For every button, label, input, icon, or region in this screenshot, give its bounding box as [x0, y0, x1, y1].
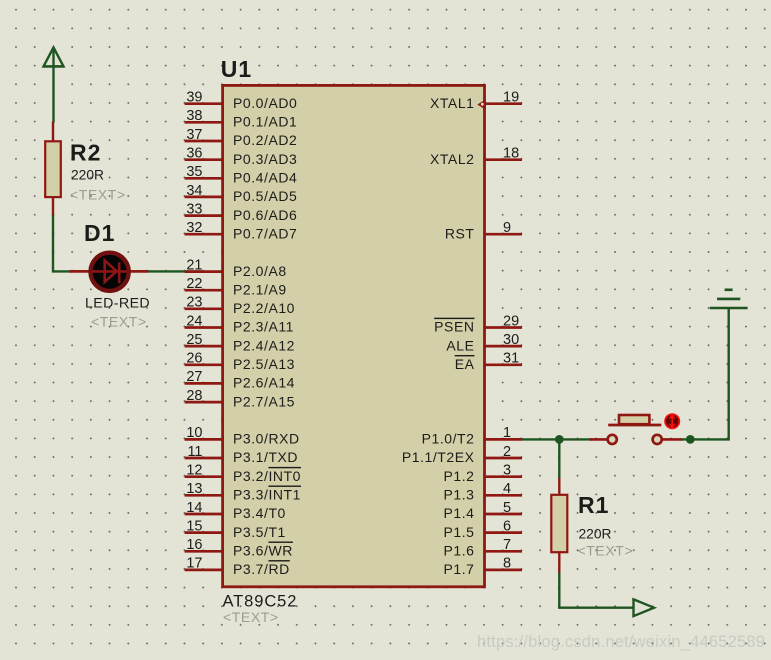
- svg-text:36: 36: [186, 146, 202, 162]
- svg-text:P3.7/RD: P3.7/RD: [233, 561, 290, 577]
- push button: [590, 415, 683, 444]
- svg-text:P0.6/AD6: P0.6/AD6: [233, 207, 297, 223]
- svg-text:33: 33: [186, 201, 202, 217]
- svg-text:29: 29: [503, 313, 519, 329]
- pin 12 P3.2/INT0: [185, 463, 301, 484]
- pin 1 P1.0/T2: [422, 425, 522, 446]
- pin 17 P3.7/RD: [185, 556, 290, 577]
- pin 31 EA: [455, 351, 522, 372]
- svg-text:P0.7/AD7: P0.7/AD7: [233, 225, 297, 241]
- svg-text:PSEN: PSEN: [434, 319, 474, 335]
- pin 25 P2.4/A12: [185, 332, 295, 353]
- svg-text:6: 6: [503, 518, 511, 534]
- pin 10 P3.0/RXD: [185, 425, 300, 446]
- svg-text:P1.4: P1.4: [444, 505, 475, 521]
- svg-text:14: 14: [186, 500, 202, 516]
- svg-text:P0.2/AD2: P0.2/AD2: [233, 132, 297, 148]
- svg-text:P3.5/T1: P3.5/T1: [233, 524, 286, 540]
- svg-text:17: 17: [186, 556, 202, 572]
- wire R1 to output arrow: [559, 573, 633, 608]
- svg-text:P0.4/AD4: P0.4/AD4: [233, 170, 297, 186]
- svg-text:P0.5/AD5: P0.5/AD5: [233, 188, 297, 204]
- button actuator marker: [665, 414, 679, 428]
- svg-text:26: 26: [186, 351, 202, 367]
- svg-text:25: 25: [186, 332, 202, 348]
- svg-text:XTAL2: XTAL2: [430, 151, 475, 167]
- pin 15 P3.5/T1: [185, 518, 286, 540]
- pin 19 XTAL1 edge marker: [477, 99, 486, 110]
- pin 4 P1.3: [444, 481, 523, 502]
- svg-text:23: 23: [186, 295, 202, 311]
- svg-text:39: 39: [186, 90, 202, 106]
- svg-text:P3.6/WR: P3.6/WR: [233, 543, 293, 559]
- svg-text:P1.0/T2: P1.0/T2: [422, 431, 475, 447]
- pin 7 P1.6: [444, 537, 523, 558]
- svg-text:P1.1/T2EX: P1.1/T2EX: [402, 449, 475, 465]
- svg-text:<TEXT>: <TEXT>: [91, 314, 147, 330]
- svg-text:P3.1/TXD: P3.1/TXD: [233, 449, 298, 465]
- svg-text:37: 37: [186, 127, 202, 143]
- svg-text:35: 35: [186, 164, 202, 180]
- svg-text:P3.4/T0: P3.4/T0: [233, 505, 286, 521]
- svg-text:9: 9: [503, 220, 511, 236]
- pin 11 P3.1/TXD: [185, 444, 298, 465]
- svg-text:19: 19: [503, 90, 519, 106]
- svg-text:13: 13: [186, 481, 202, 497]
- output arrow symbol: [634, 599, 655, 616]
- svg-text:P3.0/RXD: P3.0/RXD: [233, 431, 300, 447]
- wire R2 to D1 corner: [53, 215, 71, 271]
- pin 33 P0.6/AD6: [185, 201, 298, 222]
- svg-text:32: 32: [186, 220, 202, 236]
- svg-text:2: 2: [503, 444, 511, 460]
- wire pin1 to node A: [522, 438, 559, 440]
- pin 32 P0.7/AD7: [185, 220, 298, 241]
- svg-text:<TEXT>: <TEXT>: [70, 187, 126, 203]
- svg-text:P2.2/A10: P2.2/A10: [233, 300, 295, 316]
- svg-text:P1.5: P1.5: [444, 524, 475, 540]
- svg-text:27: 27: [186, 369, 202, 385]
- svg-text:D1: D1: [84, 220, 115, 246]
- wire node A to R1: [558, 439, 560, 479]
- svg-text:P2.6/A14: P2.6/A14: [233, 375, 295, 391]
- pin 39 P0.0/AD0: [185, 90, 298, 111]
- svg-text:P3.2/INT0: P3.2/INT0: [233, 468, 301, 484]
- svg-text:21: 21: [186, 257, 202, 273]
- svg-text:P0.3/AD3: P0.3/AD3: [233, 151, 297, 167]
- svg-text:P0.0/AD0: P0.0/AD0: [233, 95, 297, 111]
- svg-text:R1: R1: [578, 492, 609, 518]
- svg-text:4: 4: [503, 481, 511, 497]
- pin 9 RST: [445, 220, 522, 241]
- svg-text:P1.2: P1.2: [444, 468, 475, 484]
- svg-text:P1.6: P1.6: [444, 543, 475, 559]
- svg-text:LED-RED: LED-RED: [85, 296, 150, 312]
- svg-text:220R: 220R: [71, 168, 104, 183]
- LED D1: [70, 253, 149, 291]
- ground: [710, 290, 748, 308]
- pin 16 P3.6/WR: [185, 537, 293, 558]
- wire D1 to pin 21: [148, 270, 203, 272]
- pin 21 P2.0/A8: [185, 257, 287, 278]
- svg-text:XTAL1: XTAL1: [430, 95, 475, 111]
- pin 24 P2.3/A11: [185, 313, 294, 334]
- svg-text:24: 24: [186, 313, 202, 329]
- node B junction: [686, 435, 695, 444]
- svg-text:P2.7/A15: P2.7/A15: [233, 393, 295, 409]
- pin 13 P3.3/INT1: [185, 481, 301, 502]
- resistor R1: [551, 478, 567, 574]
- wire node B to ground: [682, 308, 729, 439]
- wire node A to button: [559, 438, 592, 440]
- node A junction: [555, 435, 564, 444]
- pin 27 P2.6/A14: [185, 369, 295, 390]
- svg-text:P2.3/A11: P2.3/A11: [233, 319, 294, 335]
- svg-text:R2: R2: [70, 140, 101, 166]
- pin 28 P2.7/A15: [185, 388, 295, 409]
- svg-text:15: 15: [186, 518, 202, 534]
- svg-text:EA: EA: [455, 356, 475, 372]
- pin 3 P1.2: [444, 463, 523, 484]
- svg-text:3: 3: [503, 463, 511, 479]
- svg-text:31: 31: [503, 351, 519, 367]
- svg-text:8: 8: [503, 556, 511, 572]
- svg-text:<TEXT>: <TEXT>: [578, 543, 634, 559]
- svg-text:7: 7: [503, 537, 511, 553]
- pin 22 P2.1/A9: [185, 276, 287, 297]
- svg-text:U1: U1: [221, 56, 252, 82]
- op-amp U1 AT89C52 body: [223, 85, 485, 586]
- pin 8 P1.7: [444, 556, 523, 577]
- svg-text:AT89C52: AT89C52: [223, 593, 298, 611]
- pin 38 P0.1/AD1: [185, 108, 298, 129]
- pin 19 XTAL1: [430, 90, 522, 111]
- pin 6 P1.5: [444, 518, 523, 540]
- svg-text:22: 22: [186, 276, 202, 292]
- pin 14 P3.4/T0: [185, 500, 286, 521]
- svg-text:38: 38: [186, 108, 202, 124]
- svg-text:30: 30: [503, 332, 519, 348]
- svg-text:34: 34: [186, 183, 202, 199]
- svg-text:P3.3/INT1: P3.3/INT1: [233, 487, 301, 503]
- svg-text:P1.3: P1.3: [444, 487, 475, 503]
- svg-text:P2.4/A12: P2.4/A12: [233, 337, 295, 353]
- pin 5 P1.4: [444, 500, 523, 521]
- svg-text:18: 18: [503, 146, 519, 162]
- pin 18 XTAL2: [430, 146, 522, 167]
- pin 36 P0.3/AD3: [185, 146, 298, 167]
- svg-text:12: 12: [186, 463, 202, 479]
- pin 37 P0.2/AD2: [185, 127, 298, 148]
- svg-text:16: 16: [186, 537, 202, 553]
- svg-text:10: 10: [186, 425, 202, 441]
- pin 35 P0.4/AD4: [185, 164, 298, 185]
- wire VCC to R2: [52, 66, 54, 122]
- svg-text:11: 11: [187, 444, 202, 460]
- svg-text:ALE: ALE: [446, 337, 474, 353]
- svg-text:P1.7: P1.7: [444, 561, 475, 577]
- pin 23 P2.2/A10: [185, 295, 295, 316]
- power symbol VCC top-left: [43, 48, 64, 67]
- pin 2 P1.1/T2EX: [402, 444, 522, 465]
- svg-text:P0.1/AD1: P0.1/AD1: [233, 114, 297, 130]
- pin 30 ALE: [446, 332, 522, 353]
- svg-text:220R: 220R: [579, 527, 612, 542]
- svg-text:P2.1/A9: P2.1/A9: [233, 281, 287, 297]
- pin 26 P2.5/A13: [185, 351, 295, 372]
- pin 34 P0.5/AD5: [185, 183, 298, 204]
- svg-text:5: 5: [503, 500, 511, 516]
- pin 29 PSEN: [434, 313, 522, 334]
- svg-text:<TEXT>: <TEXT>: [223, 609, 279, 625]
- svg-text:P2.0/A8: P2.0/A8: [233, 263, 287, 279]
- svg-text:28: 28: [186, 388, 202, 404]
- svg-text:P2.5/A13: P2.5/A13: [233, 356, 295, 372]
- svg-text:RST: RST: [445, 225, 475, 241]
- watermark: [477, 633, 765, 652]
- resistor R2: [45, 122, 61, 216]
- svg-text:1: 1: [503, 425, 511, 441]
